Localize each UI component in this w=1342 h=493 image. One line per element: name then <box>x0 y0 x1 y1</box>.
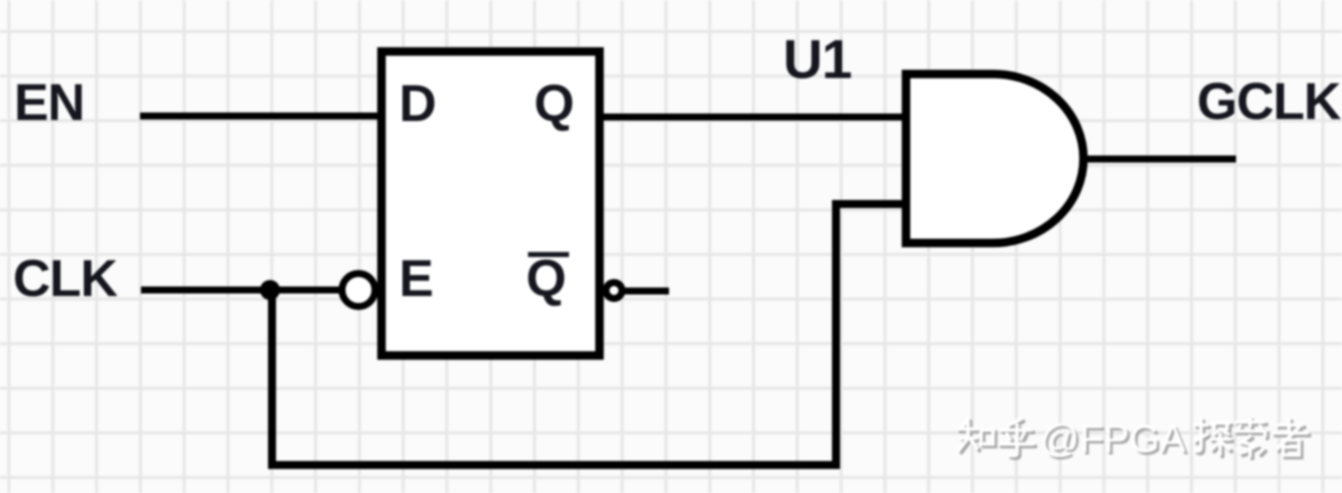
svg-text:Q: Q <box>534 75 574 133</box>
latch: D-latch body <box>382 52 600 356</box>
svg-text:Q: Q <box>526 250 566 308</box>
wire: feedback riser to AND gate <box>832 204 840 469</box>
svg-text:D: D <box>399 75 437 133</box>
svg-text:U1: U1 <box>783 28 852 90</box>
wire: Q output to AND gate input <box>600 114 906 121</box>
junction: CLK feedback tap <box>260 280 280 300</box>
svg-text:EN: EN <box>14 74 84 132</box>
wire: riser to AND gate lower input <box>832 200 906 208</box>
watermark <box>958 418 1310 464</box>
wire: feedback bottom horizontal <box>268 461 840 469</box>
bubble: E input inversion bubble <box>342 274 375 307</box>
overline of Qbar pin label <box>528 252 569 257</box>
wire: EN input <box>140 113 381 120</box>
svg-text:@FPGA: @FPGA <box>1040 418 1186 461</box>
svg-text:E: E <box>399 250 434 308</box>
wire: Qbar stub <box>624 288 669 295</box>
wire: feedback vertical drop <box>268 290 276 465</box>
svg-text:CLK: CLK <box>13 250 118 308</box>
wire: GCLK output <box>1086 156 1236 163</box>
AND gate U1 <box>906 74 1084 243</box>
bubble: Qbar output inversion bubble <box>606 283 622 299</box>
wire: CLK input <box>141 287 342 294</box>
svg-text:GCLK: GCLK <box>1197 73 1342 131</box>
